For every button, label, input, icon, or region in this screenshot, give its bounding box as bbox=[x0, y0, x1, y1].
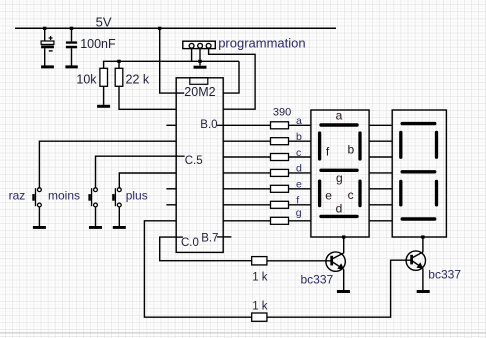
ground of plus bbox=[113, 226, 126, 229]
wire 10k bottom bbox=[103, 86, 105, 105]
junction at 22k top bbox=[117, 60, 120, 63]
wire chip to R4 bbox=[144, 221, 251, 317]
resistor Rc 390 bbox=[271, 154, 289, 161]
push button plus bbox=[112, 173, 176, 226]
capacitor C2 100nF bbox=[66, 28, 77, 65]
resistor R4 1k bbox=[252, 313, 267, 321]
capacitor C1 electrolytic bbox=[41, 28, 54, 65]
svg-text:f: f bbox=[296, 194, 299, 206]
DIS1 segment a bbox=[321, 123, 357, 126]
DIS2 segment b bbox=[435, 132, 438, 157]
svg-text:bc337: bc337 bbox=[301, 272, 334, 286]
svg-text:bc337: bc337 bbox=[428, 267, 461, 281]
transistor Q2 bc337 bbox=[406, 237, 425, 290]
wire row g bbox=[223, 220, 270, 222]
IC U1 20M2 body bbox=[176, 78, 223, 253]
pin stub right B.7 bbox=[223, 236, 231, 238]
wire divider to chip right serial pin bbox=[223, 61, 239, 93]
push button raz bbox=[32, 141, 176, 226]
wires DIS1 to DIS2 rows a-g bbox=[369, 124, 392, 126]
svg-text:d: d bbox=[296, 163, 302, 175]
svg-text:a: a bbox=[336, 108, 343, 122]
DIS2 segment a bbox=[402, 122, 435, 125]
wire row c bbox=[223, 156, 270, 158]
junction header pin2 / divider wire bbox=[198, 60, 201, 63]
svg-text:1 k: 1 k bbox=[252, 301, 268, 313]
svg-text:390: 390 bbox=[273, 106, 291, 118]
svg-text:d: d bbox=[336, 202, 343, 216]
ground of header bbox=[194, 66, 207, 69]
svg-text:C.5: C.5 bbox=[185, 155, 203, 167]
svg-text:B.7: B.7 bbox=[201, 233, 218, 245]
svg-text:plus: plus bbox=[126, 189, 148, 203]
svg-text:a: a bbox=[296, 115, 302, 127]
IC notch box bbox=[190, 78, 208, 85]
DIS1 segment c bbox=[358, 181, 361, 205]
pin stub left row7 bbox=[166, 204, 176, 206]
resistor Rg 390 bbox=[271, 217, 289, 224]
svg-text:c: c bbox=[296, 147, 301, 159]
wire chip C.0 to R3 bbox=[160, 237, 252, 261]
DIS1 segment f bbox=[318, 133, 321, 159]
ground of C1 bbox=[41, 65, 54, 68]
DIS2 segment f bbox=[399, 132, 402, 157]
junction on rail at chip supply drop bbox=[158, 27, 161, 30]
svg-text:22 k: 22 k bbox=[126, 72, 150, 86]
display DIS1 body bbox=[311, 110, 369, 237]
resistor Ra 390 bbox=[271, 122, 289, 129]
junction on rail at C2 bbox=[70, 27, 73, 30]
ground of Q2 bbox=[417, 290, 430, 293]
svg-text:b: b bbox=[296, 131, 302, 143]
canvas bottom border bbox=[0, 332, 486, 334]
segment ladder: wire row a bbox=[223, 124, 270, 126]
wire row f bbox=[223, 204, 270, 206]
wire header pin2 to ground bbox=[199, 49, 201, 66]
junction DIS2 common bbox=[421, 235, 424, 238]
DIS2 segment e bbox=[399, 181, 402, 205]
ground of moins bbox=[89, 226, 102, 229]
DIS1 segment d bbox=[321, 215, 357, 218]
DIS1 segment e bbox=[318, 181, 321, 205]
DIS1 segment b bbox=[358, 133, 361, 159]
display DIS2 body bbox=[392, 110, 446, 237]
DIS1 segment g bbox=[321, 169, 357, 172]
ground of R1 bbox=[97, 105, 110, 108]
5V power rail wire bbox=[15, 27, 336, 29]
svg-text:e: e bbox=[325, 189, 332, 203]
ground of raz bbox=[33, 226, 46, 229]
svg-text:e: e bbox=[296, 179, 302, 191]
svg-text:moins: moins bbox=[48, 189, 80, 203]
svg-text:20M2: 20M2 bbox=[184, 85, 215, 99]
svg-text:g: g bbox=[296, 207, 302, 219]
wire header pin1 down to divider wire bbox=[191, 49, 193, 61]
svg-text:5V: 5V bbox=[96, 14, 112, 29]
ground of C2 bbox=[65, 65, 77, 68]
resistor Rd 390 bbox=[271, 169, 289, 176]
svg-text:B.0: B.0 bbox=[200, 119, 217, 131]
resistor R3 1k bbox=[252, 257, 267, 265]
wire row d bbox=[223, 172, 270, 174]
svg-text:g: g bbox=[336, 171, 343, 185]
wire 22k bottom to chip serial-in pin bbox=[119, 86, 176, 109]
wire row e bbox=[223, 188, 270, 190]
svg-text:10k: 10k bbox=[76, 73, 97, 87]
wire R4 to Q2 base bbox=[267, 260, 411, 317]
wire divider top (10k/22k tops to programming header) bbox=[104, 61, 239, 68]
DIS2 segment d bbox=[402, 217, 435, 220]
wire R3 to Q1 base bbox=[267, 260, 331, 262]
programming header J1 bbox=[183, 41, 216, 48]
junction on rail at C1 bbox=[43, 27, 46, 30]
pin stub left row6 bbox=[166, 188, 176, 190]
wire 5V rail down to chip V+ pin bbox=[160, 28, 185, 93]
transistor Q1 bc337 bbox=[326, 237, 345, 290]
pin stub left row3 bbox=[166, 124, 176, 126]
resistor Rb 390 bbox=[271, 138, 289, 145]
push button moins bbox=[88, 156, 176, 226]
resistor Re 390 bbox=[271, 185, 289, 192]
svg-text:raz: raz bbox=[9, 189, 26, 203]
ground of Q1 bbox=[337, 290, 350, 293]
svg-text:100nF: 100nF bbox=[80, 37, 116, 51]
DIS2 segment g bbox=[402, 170, 435, 173]
svg-text:programmation: programmation bbox=[218, 36, 305, 51]
resistor R2 22k bbox=[118, 61, 120, 68]
svg-text:C.0: C.0 bbox=[181, 237, 199, 249]
svg-text:b: b bbox=[348, 143, 355, 157]
wire row b bbox=[223, 140, 270, 142]
svg-text:1 k: 1 k bbox=[252, 271, 268, 283]
junction DIS1 common bbox=[342, 235, 345, 238]
resistor Rf 390 bbox=[271, 201, 289, 208]
resistor R1 10k bbox=[100, 68, 108, 86]
DIS2 segment c bbox=[435, 181, 438, 205]
svg-text:c: c bbox=[348, 188, 354, 202]
wire header pin3 serial out to chip bbox=[209, 49, 256, 109]
